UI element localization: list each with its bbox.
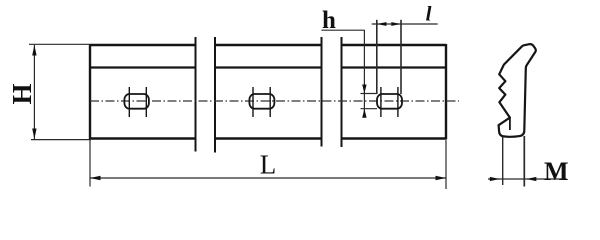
dimension l lines: [372, 20, 438, 94]
svg-text:M: M: [544, 157, 569, 186]
svg-text:l: l: [426, 2, 432, 26]
dimension H arrows: [32, 45, 36, 139]
dimension l arrows: [377, 22, 401, 26]
break line right pair: [322, 37, 342, 147]
plate segment 2 outline: [215, 45, 322, 139]
svg-text:h: h: [322, 7, 336, 34]
dimension L arrows: [90, 176, 446, 180]
dimension h arrows: [362, 85, 366, 118]
dimension M arrows: [490, 177, 537, 181]
break line left pair: [196, 37, 216, 153]
centre axis line: [90, 100, 459, 102]
side profile outline: [499, 44, 536, 137]
plate segment 3 outline: [342, 44, 447, 140]
slot hole 1: [124, 87, 148, 117]
slot hole 2: [249, 87, 274, 117]
svg-text:H: H: [7, 83, 37, 104]
slot hole 3: [377, 87, 402, 117]
dimension H extension lines: [29, 44, 91, 139]
dimension L extension lines: [90, 140, 446, 189]
dimension h leader: [321, 30, 377, 117]
svg-text:L: L: [260, 150, 277, 180]
plate segment 1 outline: [90, 44, 196, 140]
dimension M extension lines: [488, 136, 567, 187]
side profile internal edge: [509, 118, 511, 130]
